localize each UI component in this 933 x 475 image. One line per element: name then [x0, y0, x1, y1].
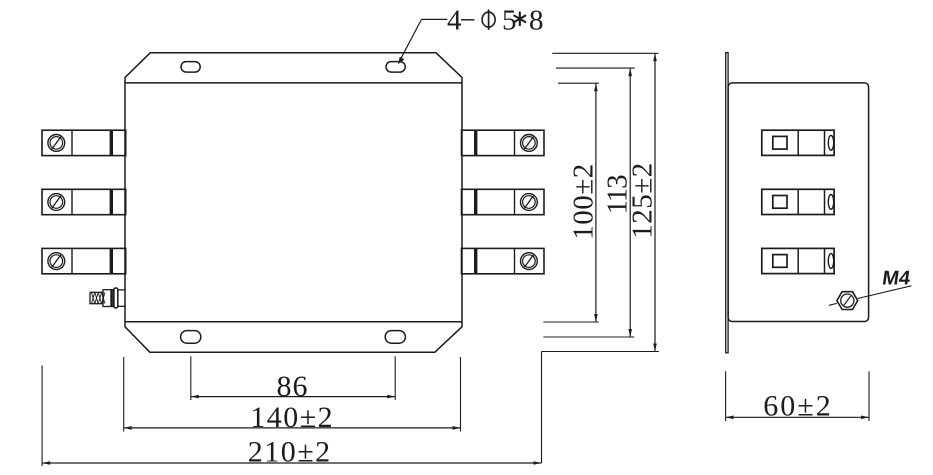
svg-text:60±2: 60±2: [763, 390, 832, 423]
svg-text:86: 86: [277, 370, 309, 403]
svg-text:125±2: 125±2: [627, 162, 659, 238]
svg-text:210±2: 210±2: [248, 436, 332, 469]
svg-text:100±2: 100±2: [568, 163, 600, 239]
svg-text:140±2: 140±2: [250, 401, 334, 434]
svg-text:M4: M4: [881, 267, 913, 289]
